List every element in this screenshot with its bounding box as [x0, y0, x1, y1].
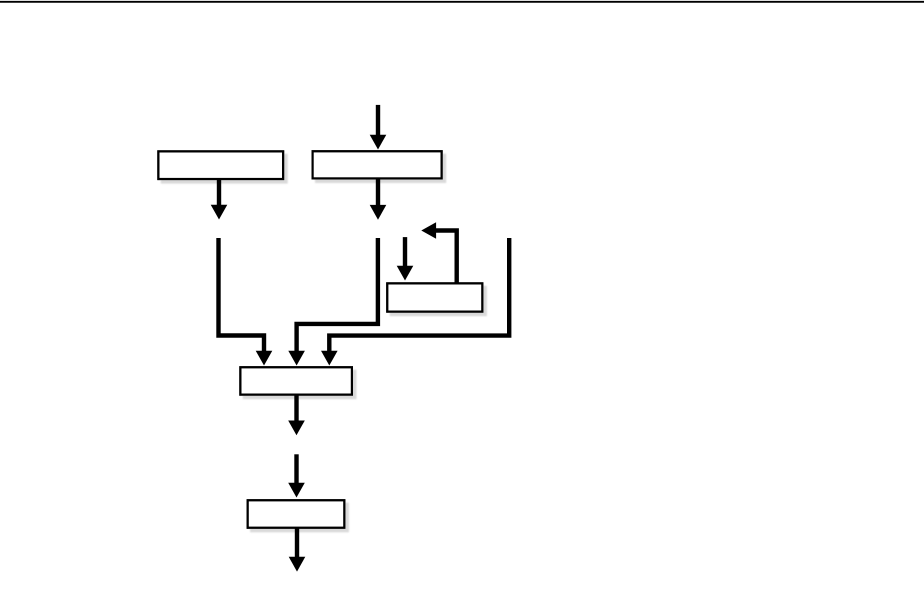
box B2 (top-right process box)	[313, 151, 442, 178]
arrow A7 (free arrow above bottom box)	[288, 454, 305, 497]
box B3 (small right-side box)	[387, 283, 482, 311]
arrow A8 below bottom box B5	[289, 528, 306, 572]
box B4 (merge box)	[240, 367, 352, 394]
wire W3 (right elbow connector into merge box)	[321, 238, 509, 366]
arrow A1 into box B2 from above	[370, 105, 387, 150]
box B5 (bottom process box)	[248, 500, 345, 527]
wire W1 (left elbow connector into merge box)	[219, 238, 273, 366]
arrow A2 below box B1	[211, 179, 228, 220]
box B1 (top-left process box)	[158, 151, 283, 179]
wire W2 (middle elbow connector into merge box)	[288, 238, 378, 366]
arrow A5 (short arrow into box B3)	[397, 237, 414, 280]
arrow A3 below box B2	[370, 178, 387, 219]
arrow A6 below merge box B4	[288, 395, 305, 436]
arrow A4 (feedback loop from box B3, pointing left)	[421, 222, 456, 283]
top rule	[0, 1, 924, 3]
